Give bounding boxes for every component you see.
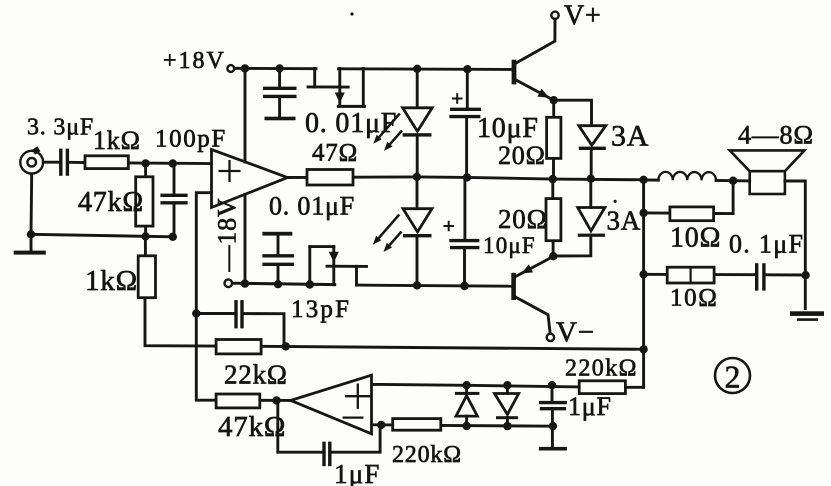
svg-text:3A: 3A (607, 206, 642, 236)
svg-text:1kΩ: 1kΩ (85, 265, 138, 297)
svg-text:20Ω: 20Ω (498, 204, 547, 234)
svg-text:20Ω: 20Ω (498, 141, 546, 170)
svg-text:1μF: 1μF (568, 392, 612, 421)
svg-text:47Ω: 47Ω (312, 140, 358, 167)
svg-text:10μF: 10μF (477, 113, 539, 144)
svg-text:3. 3μF: 3. 3μF (27, 115, 94, 141)
svg-text:220kΩ: 220kΩ (392, 442, 462, 468)
svg-text:1μF: 1μF (334, 459, 381, 486)
svg-text:3A: 3A (611, 120, 649, 153)
svg-text:22kΩ: 22kΩ (224, 360, 288, 390)
svg-text:10Ω: 10Ω (670, 285, 718, 312)
svg-text:0. 01μF: 0. 01μF (305, 108, 397, 139)
svg-text:100pF: 100pF (155, 126, 227, 153)
svg-text:2: 2 (725, 359, 742, 395)
svg-text:+18V: +18V (163, 48, 226, 74)
svg-text:V+: V+ (564, 1, 602, 32)
svg-text:13pF: 13pF (291, 296, 351, 323)
svg-text:V−: V− (556, 317, 595, 349)
svg-text:—18V: —18V (213, 198, 242, 273)
svg-text:47kΩ: 47kΩ (78, 187, 144, 218)
svg-text:47kΩ: 47kΩ (218, 411, 286, 443)
svg-text:220kΩ: 220kΩ (565, 356, 638, 382)
svg-text:1kΩ: 1kΩ (93, 126, 141, 155)
svg-text:10μF: 10μF (483, 233, 536, 258)
svg-text:0. 01μF: 0. 01μF (269, 192, 355, 221)
svg-text:4—8Ω: 4—8Ω (738, 120, 814, 150)
svg-text:0. 1μF: 0. 1μF (729, 230, 804, 259)
svg-text:10Ω: 10Ω (670, 223, 721, 254)
